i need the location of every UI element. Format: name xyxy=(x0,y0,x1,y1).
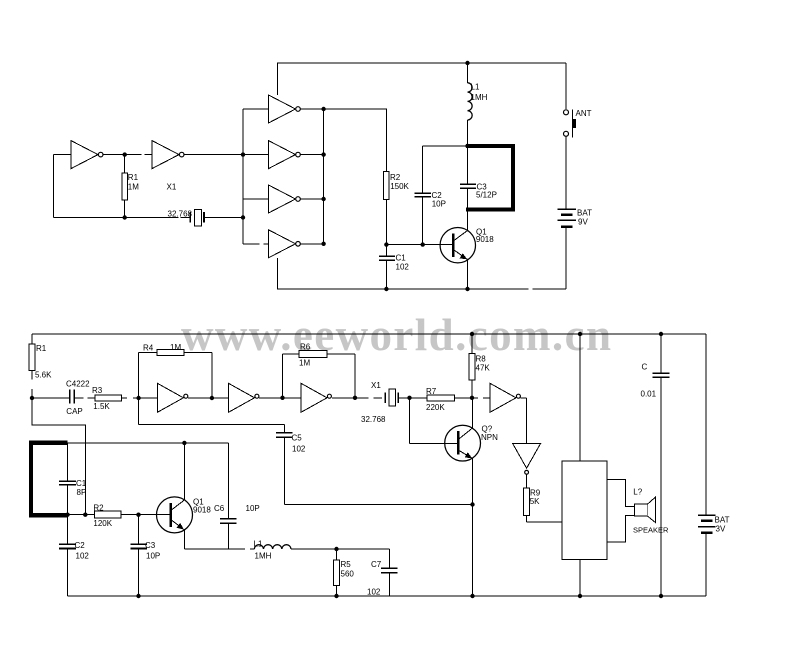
svg-text:47K: 47K xyxy=(476,364,491,373)
svg-text:5.6K: 5.6K xyxy=(35,371,52,380)
svg-text:1.5K: 1.5K xyxy=(93,402,110,411)
svg-text:32.768: 32.768 xyxy=(361,415,386,424)
svg-text:102: 102 xyxy=(396,263,410,272)
svg-text:R5: R5 xyxy=(341,560,352,569)
svg-text:102: 102 xyxy=(76,552,90,561)
svg-text:C2: C2 xyxy=(75,541,86,550)
svg-text:32.768: 32.768 xyxy=(168,210,193,219)
svg-text:8P: 8P xyxy=(77,488,87,497)
svg-text:R9: R9 xyxy=(530,488,541,497)
svg-text:R8: R8 xyxy=(476,355,487,364)
svg-text:R1: R1 xyxy=(128,173,139,182)
svg-text:1M: 1M xyxy=(170,343,181,352)
svg-text:C7: C7 xyxy=(371,560,382,569)
svg-text:150K: 150K xyxy=(390,182,409,191)
svg-text:10P: 10P xyxy=(146,552,160,561)
svg-text:C4222: C4222 xyxy=(66,380,90,389)
svg-text:C6: C6 xyxy=(214,504,225,513)
svg-text:NPN: NPN xyxy=(481,433,498,442)
svg-text:R6: R6 xyxy=(300,343,311,352)
svg-text:9V: 9V xyxy=(578,218,588,227)
svg-text:1M: 1M xyxy=(128,183,139,192)
svg-text:5/12P: 5/12P xyxy=(476,191,497,200)
svg-text:R7: R7 xyxy=(426,387,437,396)
svg-text:SPEAKER: SPEAKER xyxy=(633,526,669,535)
svg-text:L?: L? xyxy=(633,487,642,496)
svg-text:BAT: BAT xyxy=(577,209,592,218)
svg-text:R2: R2 xyxy=(390,173,401,182)
svg-text:ANT: ANT xyxy=(576,109,592,118)
svg-text:R2: R2 xyxy=(93,504,104,513)
svg-text:C3: C3 xyxy=(145,541,156,550)
svg-text:BAT: BAT xyxy=(715,516,730,525)
svg-text:L1: L1 xyxy=(471,83,480,92)
svg-text:5K: 5K xyxy=(530,497,540,506)
svg-text:9018: 9018 xyxy=(193,505,211,514)
svg-text:3V: 3V xyxy=(716,525,726,534)
svg-text:10P: 10P xyxy=(432,199,446,208)
svg-text:L1: L1 xyxy=(254,540,263,549)
svg-text:220K: 220K xyxy=(426,403,445,412)
svg-text:1M: 1M xyxy=(299,359,310,368)
svg-text:9018: 9018 xyxy=(476,235,494,244)
svg-text:C1: C1 xyxy=(396,254,407,263)
svg-text:0.01: 0.01 xyxy=(641,390,657,399)
svg-text:560: 560 xyxy=(341,570,355,579)
svg-text:R1: R1 xyxy=(36,344,47,353)
svg-text:X1: X1 xyxy=(167,183,177,192)
svg-text:R4: R4 xyxy=(143,344,154,353)
svg-text:www.eeworld.com.cn: www.eeworld.com.cn xyxy=(181,310,612,360)
svg-text:1MH: 1MH xyxy=(471,93,488,102)
svg-text:C1: C1 xyxy=(76,479,87,488)
svg-text:X1: X1 xyxy=(371,381,381,390)
svg-text:C: C xyxy=(642,363,648,372)
svg-text:CAP: CAP xyxy=(66,407,82,416)
svg-text:120K: 120K xyxy=(93,519,112,528)
svg-text:10P: 10P xyxy=(246,504,260,513)
svg-text:1MH: 1MH xyxy=(255,552,272,561)
svg-text:C5: C5 xyxy=(292,434,303,443)
svg-text:102: 102 xyxy=(367,588,381,597)
svg-text:102: 102 xyxy=(292,445,306,454)
svg-text:R3: R3 xyxy=(92,386,103,395)
